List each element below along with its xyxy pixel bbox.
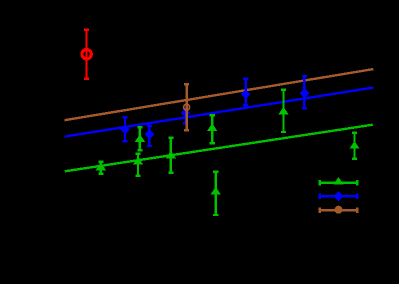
green data point G2 (135, 127, 145, 150)
brown fit line (65, 69, 374, 120)
legend entry blue series (319, 191, 357, 201)
blue data point B1 (120, 117, 130, 141)
red data point R1 (82, 30, 91, 79)
green data point G7 (349, 133, 359, 159)
blue data point B4 (241, 79, 251, 106)
green data point G5 (207, 115, 217, 143)
blue data point B5 (300, 76, 310, 108)
green fit line (65, 125, 373, 172)
legend entry brown series (319, 206, 357, 214)
blue data point B2 (145, 126, 155, 146)
green data point G8 (211, 172, 221, 215)
blue data point B3 (181, 108, 191, 123)
green data point G6 (278, 90, 288, 132)
brown data point N1 (184, 84, 190, 130)
green data point G3 (133, 154, 143, 176)
green data point G4 (166, 138, 176, 173)
legend entry green series (319, 177, 357, 186)
blue fit line (65, 88, 374, 137)
green data point G1 (96, 162, 106, 174)
